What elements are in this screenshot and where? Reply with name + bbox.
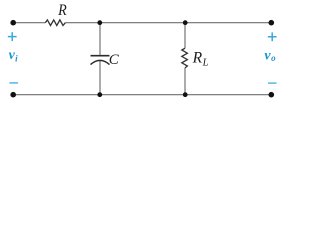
svg-text:vo: vo (264, 48, 276, 63)
svg-text:R: R (57, 2, 67, 19)
svg-text:vi: vi (9, 48, 19, 63)
svg-text:RL: RL (192, 49, 209, 68)
svg-text:C: C (109, 52, 120, 68)
